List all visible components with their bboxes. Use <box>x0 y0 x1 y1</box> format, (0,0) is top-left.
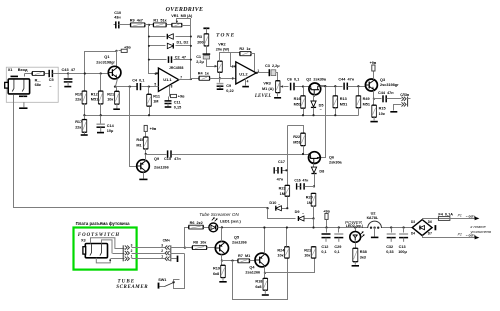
svg-text:М1: М1 <box>136 143 141 147</box>
svg-text:+9в: +9в <box>124 46 131 50</box>
label C12 0.1 <box>321 245 328 249</box>
svg-text:0,1: 0,1 <box>334 250 339 254</box>
wire Q5 collector down <box>221 255 223 261</box>
junction Q5 emitter <box>221 226 223 228</box>
capacitor C15 <box>168 150 171 157</box>
wire <box>206 29 208 35</box>
resistor R12 <box>98 91 103 104</box>
label R21 10k second <box>304 248 311 252</box>
ground under C9 <box>217 88 224 90</box>
svg-text:2: 2 <box>161 249 163 253</box>
label Q3 2sc3198gr <box>380 78 385 82</box>
svg-text:Q4: Q4 <box>249 266 255 270</box>
wire <box>326 228 328 233</box>
supply +9v Q9 <box>144 125 147 131</box>
wire D5 to bias net <box>313 108 315 116</box>
svg-text:R4 1к: R4 1к <box>198 72 209 76</box>
label F4 0.1A <box>438 212 453 216</box>
wire to D9 <box>268 209 296 219</box>
wire +9 to Q1 collector <box>116 51 118 67</box>
svg-text:Q9: Q9 <box>154 157 159 161</box>
svg-text:6к8: 6к8 <box>255 285 261 289</box>
supply +9v Q1 <box>115 50 117 52</box>
label Q9 2sa1266 <box>154 157 159 161</box>
label C43 47 <box>62 67 76 72</box>
svg-text:TONE: TONE <box>216 32 235 38</box>
wire to R8 <box>185 247 193 249</box>
wire jack sleeve stub <box>23 95 25 97</box>
wire <box>298 186 301 188</box>
svg-text:2sa1266: 2sa1266 <box>154 165 169 169</box>
svg-text:3: 3 <box>232 77 234 81</box>
wire Q4 collector down <box>264 267 266 273</box>
label C6 0.1 <box>287 77 299 81</box>
svg-text:Q2 2sk30a: Q2 2sk30a <box>306 78 327 82</box>
wire <box>177 19 191 26</box>
svg-text:C15 47н: C15 47н <box>164 157 181 161</box>
resistor R1 <box>153 23 166 27</box>
LED1 arrows <box>215 219 218 222</box>
label R19 6k8 <box>213 267 220 271</box>
wire R7 to Q4 base <box>250 260 256 262</box>
switch pivot <box>172 281 174 283</box>
svg-text:3: 3 <box>131 243 133 247</box>
wire to R68k <box>25 73 33 75</box>
label D8 <box>319 170 324 174</box>
svg-text:C10: C10 <box>114 11 121 15</box>
svg-text:R12: R12 <box>91 92 98 96</box>
wire R23 bottom to D10 line <box>287 197 289 209</box>
svg-text:R7 М1: R7 М1 <box>238 254 250 258</box>
svg-text:200: 200 <box>197 40 203 44</box>
svg-text:C44 47н: C44 47н <box>378 91 394 95</box>
wire R2 feedback to output <box>251 54 255 73</box>
svg-text:1М: 1М <box>280 192 285 196</box>
svg-text:М51: М51 <box>363 102 370 106</box>
wire <box>314 95 315 102</box>
wire <box>167 24 173 26</box>
resistor R8 <box>192 246 206 250</box>
svg-text:LED1 (зел.): LED1 (зел.) <box>220 220 241 224</box>
wire C44 to Q3 base <box>348 86 366 88</box>
wire R8 to Q5 base <box>207 247 216 249</box>
wire <box>282 208 288 210</box>
svg-text:JRC4558: JRC4558 <box>169 66 183 70</box>
label R15 10k <box>379 107 386 111</box>
wire <box>100 116 102 124</box>
svg-text:М51: М51 <box>294 102 301 106</box>
wire <box>132 258 165 260</box>
input jack X1 body <box>8 79 29 94</box>
wire <box>303 146 305 155</box>
svg-text:Q6: Q6 <box>329 155 334 159</box>
svg-text:R17: R17 <box>75 120 82 124</box>
svg-text:R20: R20 <box>306 196 313 200</box>
wire <box>171 253 185 255</box>
wire <box>264 273 266 279</box>
label R49 M51 <box>363 97 370 101</box>
label Q4 2sa1266 <box>249 266 255 270</box>
svg-text:–: – <box>278 202 280 206</box>
svg-text:22к: 22к <box>75 126 81 130</box>
label R 68k <box>35 79 41 83</box>
svg-text:Р1: Р1 <box>458 213 462 217</box>
svg-text:~ сеть: ~ сеть <box>466 234 476 238</box>
label R22 M51 <box>293 135 300 139</box>
switch left stub <box>160 286 165 288</box>
capacitor C5 <box>49 70 52 77</box>
pin 4 <box>247 79 249 83</box>
wire <box>149 45 166 47</box>
label SMch <box>163 239 170 243</box>
junction R16 top <box>302 85 304 87</box>
wire <box>335 87 337 96</box>
ground under C11 <box>165 106 172 108</box>
junction pin6 <box>156 72 158 74</box>
svg-text:D8: D8 <box>319 170 324 174</box>
junction pin2 <box>234 65 236 67</box>
junction D9/R20 <box>312 217 314 219</box>
wire <box>277 93 279 97</box>
potentiometer VR1 <box>172 23 182 27</box>
label VR1 M5(A) <box>171 14 193 18</box>
transistor Q2 JFET <box>309 83 321 95</box>
wire <box>171 258 177 260</box>
wire <box>111 258 125 260</box>
wire R68k to C5 <box>45 73 49 75</box>
svg-text:D9: D9 <box>295 210 300 214</box>
svg-text:68к: 68к <box>35 83 41 87</box>
svg-text:R9 4к7: R9 4к7 <box>130 18 143 22</box>
pin 3 <box>131 243 133 247</box>
transistor Q9 PNP <box>137 160 150 173</box>
label R45 M1 <box>136 138 143 142</box>
svg-text:C3 2,2μ: C3 2,2μ <box>265 64 280 68</box>
svg-text:X3: X3 <box>81 239 86 243</box>
svg-text:100μ: 100μ <box>398 250 407 254</box>
wire <box>146 154 167 156</box>
pin 1 <box>131 255 133 259</box>
wire <box>288 126 304 134</box>
resistor R7 <box>238 259 250 263</box>
wire <box>218 227 413 229</box>
wire emitter to C4 <box>116 86 137 88</box>
label R13 M51 <box>340 97 347 101</box>
wire <box>287 126 289 186</box>
lamp LED2 <box>354 226 356 228</box>
svg-text:0,22: 0,22 <box>226 89 233 93</box>
svg-text:3к3: 3к3 <box>360 255 366 259</box>
svg-text:СМч: СМч <box>163 239 170 243</box>
node feedback top <box>148 24 150 26</box>
label R23 1M <box>279 187 286 191</box>
svg-text:F4 0,1А: F4 0,1А <box>438 212 453 216</box>
label C4 0.1 <box>132 79 144 83</box>
svg-text:1: 1 <box>161 255 163 259</box>
svg-text:C43 47: C43 47 <box>62 67 76 72</box>
svg-text:R10: R10 <box>75 92 82 96</box>
ground under C43 <box>64 86 71 88</box>
resistor R3 <box>204 34 209 46</box>
junction output/rail <box>190 78 192 80</box>
resistor R45 <box>143 137 148 149</box>
wire R12 top stub <box>100 74 102 92</box>
svg-text:C1: C1 <box>196 55 201 59</box>
wire <box>257 72 269 74</box>
wire <box>119 50 122 52</box>
wire <box>179 79 191 81</box>
svg-text:X1: X1 <box>8 67 14 72</box>
wire Q2 out to C44 <box>321 86 343 88</box>
svg-text:R2 1к: R2 1к <box>239 47 250 51</box>
potentiometer VR2 <box>218 61 223 72</box>
svg-text:D4: D4 <box>411 232 415 236</box>
wire <box>190 26 192 80</box>
ground under R15 <box>370 121 377 123</box>
wire <box>171 247 185 249</box>
pin 3 <box>232 77 234 81</box>
wire <box>84 116 86 120</box>
wire down to +9 rail <box>313 219 315 228</box>
diode D9 <box>298 216 304 221</box>
svg-text:R22: R22 <box>293 135 300 139</box>
node Q5 collector <box>221 260 223 262</box>
svg-text:+9в: +9в <box>370 61 377 65</box>
label Вход <box>18 67 28 72</box>
wire <box>450 218 477 220</box>
wire C5 to node <box>53 73 69 75</box>
label C2 47 <box>175 55 186 59</box>
svg-text:Р2: Р2 <box>458 233 462 237</box>
label LED2 <box>346 224 363 228</box>
transistor Q5 PNP <box>215 241 228 254</box>
svg-text:C17: C17 <box>278 160 285 164</box>
svg-text:2sc3198gr: 2sc3198gr <box>380 83 399 87</box>
X3 wiring box <box>91 238 115 248</box>
label to amplifier board <box>471 224 487 229</box>
wire <box>355 228 357 232</box>
svg-text:R21: R21 <box>304 248 311 252</box>
pin 2 <box>232 64 234 68</box>
wire <box>391 228 393 233</box>
svg-text:SCREAMER: SCREAMER <box>116 285 148 290</box>
wire <box>114 24 116 26</box>
junction R13 top <box>334 85 336 87</box>
transistor Q3 <box>365 79 377 91</box>
wire emitter to C44b <box>374 98 382 100</box>
svg-text:–: – <box>49 85 51 89</box>
wire R4 to pin3 <box>210 78 236 80</box>
wire input node to Q1 base <box>69 73 108 75</box>
wire <box>220 53 241 62</box>
wire up to R6 <box>185 228 189 248</box>
svg-text:R6 2к2: R6 2к2 <box>190 221 203 225</box>
wire Q5 emitter up <box>221 228 223 242</box>
node input/C43 <box>67 72 69 74</box>
label R8 10k <box>193 241 206 245</box>
svg-text:0,15: 0,15 <box>174 105 181 109</box>
label U1.1 <box>163 77 172 82</box>
wire drop to pin 2 <box>231 53 236 67</box>
svg-text:D1, D2: D1, D2 <box>177 40 189 44</box>
svg-text:47н: 47н <box>277 177 284 181</box>
resistor R 68k <box>32 72 44 76</box>
wire <box>219 73 221 79</box>
svg-text:R13: R13 <box>340 97 347 101</box>
wire R3 to C1 <box>206 46 208 54</box>
wire R24 top to rail <box>286 228 288 247</box>
svg-text:R18: R18 <box>255 280 262 284</box>
label R17 22k <box>75 120 82 124</box>
label C29 0.1 <box>334 245 341 249</box>
label C14 10u <box>107 124 115 128</box>
label Q6 2sk30a <box>329 155 334 159</box>
wire <box>320 87 326 158</box>
svg-text:VR3: VR3 <box>263 82 270 86</box>
wire <box>130 87 137 167</box>
wire <box>276 170 278 172</box>
wire <box>84 104 86 116</box>
wire <box>145 132 147 138</box>
wire <box>219 79 221 83</box>
junction loop <box>231 260 233 262</box>
svg-text:R...: R... <box>35 79 41 83</box>
label Q2 2sk30a <box>306 78 327 82</box>
wire C1 to VR2 wiper <box>207 60 216 67</box>
wire <box>132 247 165 249</box>
label Q5 2sa1266 <box>234 236 239 240</box>
output connector pin 1 chevron <box>407 97 409 107</box>
svg-text:VR1 М5 (А): VR1 М5 (А) <box>171 14 193 18</box>
svg-text:М51: М51 <box>293 141 300 145</box>
svg-text:2sa1266: 2sa1266 <box>232 241 247 245</box>
op-amp U1.2 <box>236 62 256 84</box>
wire <box>408 98 411 100</box>
wire C4 to pin5 <box>142 86 159 88</box>
label VR3 M1(A) <box>263 82 270 86</box>
wire <box>119 24 131 26</box>
node Q9 emitter <box>145 153 147 155</box>
jack X1 contacts <box>12 80 14 92</box>
svg-text:43н: 43н <box>114 15 121 19</box>
label R4 1k <box>198 72 209 76</box>
svg-text:Tube Screamer ON: Tube Screamer ON <box>199 212 239 217</box>
svg-text:6к8: 6к8 <box>213 272 219 276</box>
svg-text:R1 51к: R1 51к <box>153 18 166 22</box>
wire <box>374 228 376 237</box>
svg-text:10к: 10к <box>277 254 283 258</box>
resistor R9 <box>131 23 145 27</box>
svg-text:10μ: 10μ <box>107 129 114 133</box>
node Q1 emitter <box>114 86 116 88</box>
label D9 <box>295 210 300 214</box>
svg-text:LEVEL: LEVEL <box>254 94 272 99</box>
label POWER <box>345 220 363 225</box>
resistor R2 <box>240 52 251 56</box>
label U2 KA78L <box>371 211 376 215</box>
wire R20 bottom to D9 node <box>313 206 315 219</box>
svg-text:усилителя: усилителя <box>470 229 492 234</box>
ground under R38 <box>352 265 359 267</box>
switch fixed contact <box>174 280 180 282</box>
junction Q9 branch <box>129 86 131 88</box>
wire <box>305 218 314 220</box>
svg-text:+9в: +9в <box>178 95 185 99</box>
svg-text:8: 8 <box>171 84 173 88</box>
wire <box>169 86 171 97</box>
wire to R7 <box>222 260 239 262</box>
svg-text:C9: C9 <box>226 84 231 88</box>
wire R10 top to +9 node <box>85 52 117 92</box>
wire <box>149 36 166 38</box>
wire <box>423 219 439 220</box>
label D1 D2 <box>177 40 189 44</box>
label C13 100u <box>399 245 406 249</box>
switch blade <box>165 283 174 287</box>
potentiometer VR3 <box>276 81 280 93</box>
svg-text:D3: D3 <box>411 220 415 224</box>
svg-text:C2 47: C2 47 <box>175 55 186 59</box>
wire <box>176 36 191 38</box>
op-amp U1.1 <box>158 68 178 91</box>
label R10 22k <box>75 92 82 96</box>
label R21 10k <box>107 92 114 96</box>
wire <box>403 228 405 233</box>
svg-text:М51: М51 <box>340 102 347 106</box>
label R24 10k <box>277 248 285 252</box>
resistor R23 <box>285 185 290 196</box>
capacitor C44b <box>383 95 386 102</box>
svg-text:C44 47н: C44 47н <box>338 77 354 81</box>
wire <box>132 253 165 255</box>
svg-text:R24: R24 <box>277 248 285 252</box>
svg-text:D7: D7 <box>428 232 432 236</box>
supply bar above R3 <box>203 27 209 29</box>
label set 2 <box>466 234 476 238</box>
svg-text:10к: 10к <box>107 98 113 102</box>
svg-text:R21: R21 <box>107 92 114 96</box>
ground under R18 <box>262 294 269 296</box>
label C44 47n <box>338 77 354 81</box>
wire <box>335 108 337 116</box>
wire <box>115 248 125 250</box>
label LED1 <box>220 220 241 224</box>
label C16 47n <box>294 179 308 183</box>
svg-text:C11: C11 <box>174 101 181 105</box>
svg-text:R8 10к: R8 10к <box>193 241 206 245</box>
svg-text:М1 (А): М1 (А) <box>262 87 274 91</box>
svg-text:2sk30a: 2sk30a <box>329 161 343 165</box>
wire D8 down to C16 node <box>314 174 316 187</box>
title TUBE SCREAMER <box>118 280 136 285</box>
svg-text:D6: D6 <box>428 220 432 224</box>
svg-text:10к: 10к <box>304 254 310 258</box>
svg-text:Плата разъёма футсвича: Плата разъёма футсвича <box>76 221 131 226</box>
capacitor C29 <box>338 226 340 228</box>
green box FOOTSWITCH <box>74 228 137 270</box>
svg-text:C13: C13 <box>399 245 406 249</box>
title LEVEL <box>254 94 272 99</box>
wire R11 bottom to bias net <box>149 107 151 116</box>
svg-text:–: – <box>320 107 322 111</box>
loop wire Q4 collector to R21 bottom <box>265 258 315 273</box>
wire C3 to VR3 <box>276 73 278 81</box>
label U1.2 <box>239 71 248 76</box>
resistor R10 <box>82 91 87 104</box>
label D7 <box>428 232 432 236</box>
wire jack tip up <box>24 74 26 77</box>
label Tube Screamer ON <box>199 212 239 217</box>
